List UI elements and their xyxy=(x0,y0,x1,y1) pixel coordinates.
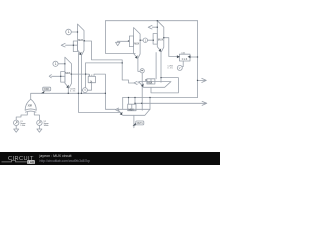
ground V1 xyxy=(14,129,19,132)
junction dot mux M1 port input xyxy=(73,45,74,46)
wire mux M1 select down xyxy=(80,55,82,93)
wire long output net y=103.3 xyxy=(135,102,201,104)
wire port to mux M1 box xyxy=(66,44,78,46)
svg-text:MUX: MUX xyxy=(65,72,70,75)
wire mux M6 box stub xyxy=(146,79,147,81)
mux M2 select box xyxy=(129,36,133,47)
meter P1 circle xyxy=(83,88,88,93)
junction dot bus M5 right corner xyxy=(149,97,150,98)
wire mux M5 output down xyxy=(133,115,135,128)
select arrow mux M6 xyxy=(141,83,144,86)
arrow into resistor R1 right xyxy=(188,55,191,58)
junction dot mux M1 out pin xyxy=(84,40,85,41)
logo waveform xyxy=(2,160,27,162)
junction dot mux M3 out pin xyxy=(163,37,164,38)
junction dot mux M4 port input xyxy=(60,76,61,77)
svg-text:V: V xyxy=(84,88,86,92)
wire output port stub y=80.4 xyxy=(198,79,202,81)
wire bottom bus y=97.5 xyxy=(123,97,198,99)
wire down to mux M5 slant xyxy=(78,93,120,112)
junction dot xor net at X1 pin xyxy=(105,93,106,94)
mux M4 select box xyxy=(61,72,65,83)
probe F3 circle xyxy=(140,69,144,73)
svg-text:CLK: CLK xyxy=(182,59,188,61)
junction dot wire62.9 xyxy=(122,62,123,63)
source V2 circle xyxy=(37,120,42,125)
flag2 circle input mux M4 xyxy=(53,61,58,66)
select arrow mux M1 xyxy=(79,52,82,55)
mux M2 body xyxy=(134,28,141,59)
mux M1 body xyxy=(78,24,85,55)
junction dot M6 loop xyxy=(160,77,161,78)
xor gate U1 pointing up xyxy=(25,99,36,110)
junction dot mux M1 flag input xyxy=(77,31,78,32)
wire mux M1 second bottom pin xyxy=(77,53,79,94)
port arrow into mux M5 xyxy=(115,108,119,112)
svg-text:jayeon : MUX circuit: jayeon : MUX circuit xyxy=(39,154,72,158)
svg-text:5 kHz: 5 kHz xyxy=(20,125,25,127)
mux M1 select box xyxy=(73,41,77,52)
svg-text:0.35: 0.35 xyxy=(70,90,76,92)
mux M6 body pointing down xyxy=(139,82,171,88)
wire node B1 y=62.9 xyxy=(86,62,123,64)
port arrow output right y=80.4 xyxy=(201,78,206,82)
wire probe F3 down to mux M5 pin xyxy=(141,73,143,110)
mux M5 select box xyxy=(128,104,136,111)
wire mux M5 left corner feed xyxy=(122,98,124,110)
junction dot mux M3 top point xyxy=(157,20,158,21)
junction dot X1 crossing xyxy=(85,74,86,75)
junction dot rail port stub xyxy=(197,80,198,81)
junction dot rail R1 pin xyxy=(197,56,198,57)
wire select feed down left x=105.5 xyxy=(106,21,136,54)
component X1 box xyxy=(88,76,95,82)
wire mux M3 select vertical a xyxy=(155,53,157,79)
wire mux M5 right corner feed xyxy=(149,98,151,110)
wire source V2 bottom stub xyxy=(38,125,40,129)
wire right rail x=197.5 xyxy=(197,21,199,98)
wire mux M2 input y=41 xyxy=(117,40,128,42)
junction dot xor net at mux M1 select xyxy=(81,93,82,94)
port arrow into mux M3 xyxy=(148,25,152,29)
wire mux M5 box pin b xyxy=(134,98,136,105)
wire mux M3 output to resistor R1 xyxy=(164,38,178,57)
select arrow mux M5 xyxy=(120,112,123,115)
mux M6 select box xyxy=(147,79,155,84)
wire mux M2 output to probe F2 xyxy=(140,39,143,41)
junction dot mux M6 stub xyxy=(145,79,146,80)
wire mux M4 select down xyxy=(67,88,69,93)
wire x=85.6 to meter P1 top xyxy=(85,63,87,88)
junction dot xor net at mux M4 out xyxy=(78,93,79,94)
port arrow into mux M1 xyxy=(61,43,65,47)
select arrow mux M4 xyxy=(66,85,69,88)
svg-text:MUX: MUX xyxy=(129,109,135,112)
wire meter P1 right to X1 bottom xyxy=(87,83,91,91)
svg-text:V: V xyxy=(179,66,181,70)
junction dot xor net at mux M4 select xyxy=(68,93,69,94)
junction dot mux M4 flag input xyxy=(64,63,65,64)
wire probe F2 to mux M3 box xyxy=(148,39,154,41)
junction dot bus M5 pin a xyxy=(128,97,129,98)
wire meter P1 left stub xyxy=(81,89,82,91)
meter P2 circle xyxy=(177,65,182,70)
junction dot mux M3 port xyxy=(157,27,158,28)
svg-text:XOR1: XOR1 xyxy=(44,89,51,91)
wire xor U1 right input to source V2 xyxy=(34,112,39,120)
wire xor U1 output net y=93.3 xyxy=(31,93,106,99)
svg-text:http://circuitlab.com/cwd9fc3d: http://circuitlab.com/cwd9fc3d87kp xyxy=(40,159,91,163)
svg-text:OUT1: OUT1 xyxy=(137,123,144,125)
wire mux M5 box pin a xyxy=(128,98,130,105)
flag1 circle input mux M1 xyxy=(66,29,72,35)
mux M5 body pointing down xyxy=(118,109,150,115)
svg-text:MUX: MUX xyxy=(134,42,139,45)
svg-text:1: 1 xyxy=(68,30,70,34)
wire mux M3 select vertical b into mux M6 xyxy=(160,52,162,83)
junction dot mux M2 out pin xyxy=(140,40,141,41)
ground V2 xyxy=(37,129,42,132)
footer bar xyxy=(0,152,220,165)
glyph in probe F3 xyxy=(141,69,143,72)
select arrow mux M3 xyxy=(159,48,162,51)
label box mux M5 output xyxy=(136,121,144,125)
label box xor output xyxy=(43,87,51,91)
wire source V1 bottom stub xyxy=(15,125,17,129)
junction dot mux M1 out top xyxy=(84,40,85,41)
port arrow into mux M4 xyxy=(49,74,51,78)
wire resistor R1 right pin to rail xyxy=(190,56,198,58)
svg-text:1: 1 xyxy=(55,62,57,66)
wire mux M1 output to mux M6 box xyxy=(84,41,134,83)
svg-text:XOR: XOR xyxy=(28,106,33,108)
wire flag2 to mux M4 xyxy=(58,63,65,65)
wire mux M4 output to X1 xyxy=(71,74,89,76)
select arrow mux M2 xyxy=(135,55,138,58)
mux M3 select box xyxy=(153,34,157,45)
mux M3 body xyxy=(157,21,164,52)
wire loop mux M6 output xyxy=(151,78,178,93)
label arrow xor output xyxy=(41,91,45,94)
port arrow output right y=103.3 xyxy=(201,101,207,105)
probe F2 circle xyxy=(143,38,147,42)
port arrow mux M6 left xyxy=(134,81,140,84)
svg-text:LAB: LAB xyxy=(28,160,34,164)
wire xor U1 left input to source V1 xyxy=(16,112,27,120)
svg-text:0.35: 0.35 xyxy=(168,68,174,70)
svg-text:MUX: MUX xyxy=(78,39,83,42)
wire port to mux M4 box xyxy=(52,75,65,77)
wire flag1 to mux M1 xyxy=(71,31,77,33)
junction dot long net probe line xyxy=(141,103,142,104)
label arrow mux M5 output xyxy=(133,123,136,126)
junction dot mux M2 box input xyxy=(128,40,129,41)
junction dot bus M5 pin b xyxy=(134,97,135,98)
junction dot mux M4 out pin xyxy=(71,74,72,75)
source V1 circle xyxy=(14,120,19,125)
arrow into resistor R1 left xyxy=(177,55,180,58)
junction dot long net start xyxy=(134,103,135,104)
mux M4 body xyxy=(65,57,72,88)
meter P2 stub to resistor R1 xyxy=(182,61,183,67)
wire component X1 right pin down to mux M5 port xyxy=(94,74,115,109)
down arrow glyph at mux M2 input wire end xyxy=(116,42,120,45)
glyph arrow in source V1 xyxy=(15,122,17,124)
svg-text:MUX: MUX xyxy=(147,82,152,85)
wire top net from mux M2 select to right rail xyxy=(106,20,198,22)
svg-text:MUX: MUX xyxy=(158,39,164,42)
wire mux M3 port input xyxy=(152,26,157,28)
logo LAB badge xyxy=(27,160,35,164)
resistor R1 box xyxy=(179,54,190,61)
glyph arrow in source V2 xyxy=(39,122,41,124)
svg-text:10 kHz: 10 kHz xyxy=(44,125,49,127)
wire mux M2 select to probe F3 xyxy=(138,59,140,72)
junction dot mux M3 box input xyxy=(153,40,154,41)
